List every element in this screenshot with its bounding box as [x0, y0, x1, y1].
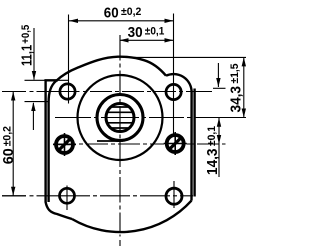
svg-text:34,3: 34,3 — [227, 86, 244, 113]
svg-text:60: 60 — [0, 148, 17, 164]
svg-text:±1,5: ±1,5 — [229, 64, 241, 84]
svg-text:±0,2: ±0,2 — [121, 6, 141, 18]
svg-text:±0,2: ±0,2 — [2, 126, 14, 146]
svg-text:60: 60 — [104, 5, 119, 22]
svg-text:30: 30 — [128, 24, 143, 41]
svg-text:±0,1: ±0,1 — [206, 126, 218, 146]
svg-text:+0,5: +0,5 — [20, 25, 32, 44]
svg-text:±0,1: ±0,1 — [145, 25, 165, 37]
svg-text:11,1: 11,1 — [18, 45, 35, 66]
svg-text:14,3: 14,3 — [204, 149, 221, 176]
